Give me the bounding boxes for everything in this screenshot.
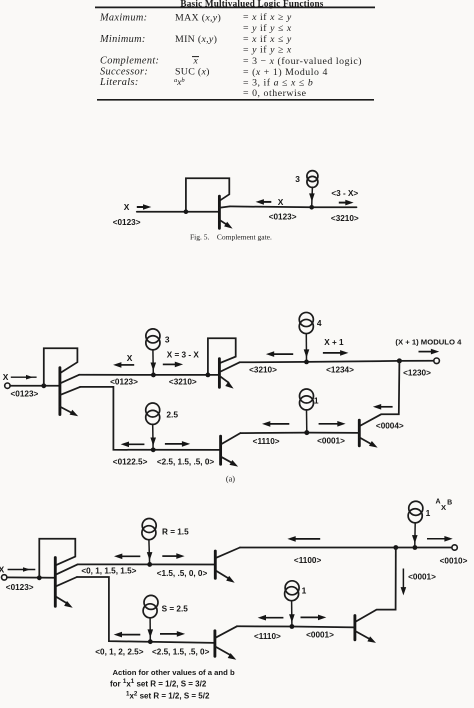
arrow left top wire <box>120 364 134 366</box>
svg-text:<0, 1, 1.5, 1.5>: <0, 1, 1.5, 1.5> <box>81 567 136 576</box>
current source I6 value R <box>142 519 156 533</box>
I8 drop wire with arrow <box>149 618 151 640</box>
fig5 wire Q1 collector to output <box>230 205 357 208</box>
svg-text:<0010>: <0010> <box>440 557 468 566</box>
input terminal circle <box>5 383 10 388</box>
Q6 emitter with arrow <box>56 597 67 604</box>
svg-text:X: X <box>127 353 133 363</box>
svg-text:<3210>: <3210> <box>331 214 359 223</box>
Q2 collector 2 diagonal <box>60 375 79 384</box>
current source I5 value 1 <box>300 389 314 403</box>
svg-text:X = 3 - X: X = 3 - X <box>167 351 200 360</box>
svg-text:<1.5, .5, 0, 0>: <1.5, .5, 0, 0> <box>157 569 208 578</box>
svg-text:MIN (x,y): MIN (x,y) <box>175 34 217 45</box>
svg-text:X: X <box>278 197 284 207</box>
fig5 node base junction <box>184 209 189 214</box>
node I8 junction <box>148 639 153 644</box>
Q6 collector 2 diagonal <box>56 564 78 574</box>
output terminal circle <box>434 358 440 364</box>
svg-text:B: B <box>447 499 452 506</box>
svg-text:1: 1 <box>314 395 319 405</box>
node Q2 base junction <box>41 383 46 388</box>
node I2 junction <box>151 373 156 378</box>
svg-text:4: 4 <box>317 318 322 328</box>
svg-text:<3 - X>: <3 - X> <box>331 189 358 198</box>
svg-text:3: 3 <box>295 174 300 184</box>
svg-text:R = 1.5: R = 1.5 <box>162 528 189 537</box>
wire input to Q2 <box>10 385 60 387</box>
svg-text:axb: axb <box>174 77 185 87</box>
arrow right bottom left wire <box>160 633 177 635</box>
svg-text:Fig. 5. Complement gate.: Fig. 5. Complement gate. <box>190 232 272 241</box>
transistor Q3 base bar <box>218 359 221 388</box>
svg-text:1: 1 <box>302 585 307 595</box>
svg-text:<1100>: <1100> <box>294 556 322 565</box>
svg-text:X: X <box>441 503 446 512</box>
Q3 output collector diagonal <box>220 362 240 372</box>
arrow right after I3 <box>323 352 341 354</box>
svg-text:= 3 − x (four-valued logic): = 3 − x (four-valued logic) <box>243 56 362 67</box>
I4 drop wire with arrow <box>152 424 154 448</box>
fig5 node I1 junction <box>309 205 314 210</box>
current source I8 value S <box>144 595 158 609</box>
svg-text:A: A <box>435 499 440 506</box>
node I9 junction <box>290 624 295 629</box>
svg-text:X: X <box>3 372 9 382</box>
Q7 emitter with arrow <box>216 571 229 579</box>
svg-text:<0123>: <0123> <box>6 583 34 592</box>
node I5 junction <box>304 430 309 435</box>
Q6 collector feedback loop <box>39 539 75 577</box>
svg-text:= x if x ≤ y: = x if x ≤ y <box>243 34 292 45</box>
arrow left top wire bottom diagram <box>121 555 140 557</box>
Q3 collector feedback loop <box>208 338 236 374</box>
svg-text:Action for other values of a a: Action for other values of a and b <box>113 668 235 677</box>
transistor Q8 base bar <box>213 631 216 657</box>
current source I2 value 3 <box>146 329 160 343</box>
arrow right bottom row <box>165 443 183 445</box>
svg-text:<1230>: <1230> <box>403 369 431 378</box>
wire drop node down to Q9 collector <box>356 548 396 622</box>
svg-text:1x2 set R = 1/2, S = 5/2: 1x2 set R = 1/2, S = 5/2 <box>126 691 210 701</box>
svg-text:<0001>: <0001> <box>317 437 345 446</box>
svg-text:Literals:: Literals: <box>99 77 139 88</box>
svg-text:X: X <box>124 202 130 212</box>
svg-text:<1234>: <1234> <box>326 365 354 374</box>
fig5 Q1 output collector <box>219 206 229 207</box>
wire output node down to Q5 collector <box>360 361 400 426</box>
svg-text:<3210>: <3210> <box>249 365 277 374</box>
svg-text:<0004>: <0004> <box>376 421 404 430</box>
svg-text:Maximum:: Maximum: <box>99 13 147 24</box>
I2 drop wire with arrow <box>152 350 154 374</box>
arrow right after I9 <box>301 616 319 618</box>
svg-text:(a): (a) <box>226 475 235 484</box>
node I6 junction <box>147 562 152 567</box>
svg-text:<0, 1, 2, 2.5>: <0, 1, 2, 2.5> <box>95 648 143 657</box>
Q8 collector diagonal <box>216 626 237 637</box>
transistor Q9 base bar <box>353 616 356 640</box>
arrow right before output terminal <box>419 351 432 353</box>
I6 drop wire with arrow <box>148 540 151 564</box>
svg-text:x: x <box>193 56 199 67</box>
current source I7 value 1 <box>409 501 423 515</box>
Q2 collector 3 diagonal <box>60 387 80 395</box>
arrow left before I9 <box>265 617 283 619</box>
svg-text:MAX (x,y): MAX (x,y) <box>175 13 221 24</box>
current source I1 value 3 <box>307 171 318 182</box>
node I3 junction <box>304 360 309 365</box>
fig5 I1 drop wire with arrow <box>311 187 314 206</box>
arrow right after I5 <box>319 423 338 425</box>
svg-text:<0001>: <0001> <box>408 572 436 581</box>
node Q3 base junction <box>206 373 211 378</box>
transistor Q2 base bar <box>58 368 61 415</box>
Q2 emitter with arrow <box>60 407 72 413</box>
Q4 collector diagonal <box>221 433 240 444</box>
svg-text:Minimum:: Minimum: <box>99 34 146 45</box>
svg-text:for 1x1 set R = 1/2, S = 3/2: for 1x1 set R = 1/2, S = 3/2 <box>110 678 207 688</box>
svg-text:S = 2.5: S = 2.5 <box>162 604 189 613</box>
svg-text:= (x + 1) Modulo 4: = (x + 1) Modulo 4 <box>243 67 328 78</box>
Q6 collector 3 diagonal <box>56 577 77 586</box>
fig5 wire input to Q1 base <box>137 211 220 213</box>
fig5 Q1 emitter with arrow <box>219 220 227 225</box>
svg-text:<0123>: <0123> <box>113 218 141 227</box>
transistor Q1 base bar <box>218 196 221 228</box>
Q8 emitter with arrow <box>216 647 230 655</box>
svg-text:Complement:: Complement: <box>100 56 159 67</box>
Q5 emitter with arrow <box>360 438 370 444</box>
node drop junction <box>393 545 398 550</box>
current source I9 value 1 <box>285 581 299 595</box>
transistor Q6 base bar <box>54 558 57 607</box>
wire Q3 to output node <box>240 361 400 362</box>
table bottom rule <box>97 99 374 101</box>
node I4 junction <box>151 447 156 452</box>
svg-text:SUC (x): SUC (x) <box>175 67 210 78</box>
svg-text:<2.5, 1.5, .5, 0>: <2.5, 1.5, .5, 0> <box>152 648 210 657</box>
fig5 arrow right output <box>339 202 346 204</box>
svg-text:<1110>: <1110> <box>254 632 281 641</box>
fig5 arrow right at input <box>137 206 144 208</box>
node output junction <box>397 358 402 363</box>
wire Q6 collector3 down to Q8 <box>77 577 215 643</box>
node I7 junction <box>413 545 418 550</box>
I5 drop wire <box>306 410 308 433</box>
svg-text:= 0, otherwise: = 0, otherwise <box>243 88 307 99</box>
svg-text:<0122.5>: <0122.5> <box>113 457 148 466</box>
svg-text:<3210>: <3210> <box>169 378 197 387</box>
fig5 collector feedback loop wire <box>186 178 229 211</box>
transistor Q5 base bar <box>358 420 361 446</box>
svg-text:<0123>: <0123> <box>269 213 297 222</box>
Q3 emitter with arrow <box>220 376 229 382</box>
svg-text:<0123>: <0123> <box>11 389 39 398</box>
I9 drop wire with arrow <box>291 601 293 625</box>
arrow left bottom row <box>128 443 144 445</box>
arrow left mid top wire <box>295 538 321 540</box>
input arrow bottom <box>8 569 36 571</box>
wire bottom row to Q5 base <box>240 432 359 435</box>
current source I4 value 2.5 <box>146 403 160 417</box>
arrow left bottom left wire <box>121 634 140 636</box>
svg-text:X: X <box>0 564 5 574</box>
svg-text:X + 1: X + 1 <box>324 338 344 347</box>
svg-text:= x if x ≥ y: = x if x ≥ y <box>243 12 292 23</box>
Q4 emitter with arrow <box>221 457 232 463</box>
table top rule <box>95 6 375 8</box>
wire bottom row right to Q9 base <box>237 626 355 627</box>
arrow right top wire <box>163 363 176 365</box>
Q9 emitter with arrow <box>355 631 368 638</box>
svg-text:<0001>: <0001> <box>306 631 334 640</box>
output terminal circle bottom <box>452 545 457 550</box>
svg-text:(X + 1) MODULO 4: (X + 1) MODULO 4 <box>395 337 462 346</box>
svg-text:3: 3 <box>165 334 170 344</box>
svg-text:1: 1 <box>426 508 431 518</box>
input arrow <box>11 376 37 378</box>
arrow left before I3 <box>273 353 293 355</box>
wire to output terminal <box>399 360 433 362</box>
down arrow on drop wire <box>402 569 404 589</box>
svg-text:Successor:: Successor: <box>100 67 148 78</box>
svg-text:= y if y ≤ x: = y if y ≤ x <box>243 23 292 34</box>
fig5 label arrow left X <box>262 201 271 203</box>
Q2 collector feedback loop <box>44 348 78 385</box>
Q7 collector diagonal <box>216 548 240 558</box>
current source I3 value 4 <box>299 312 313 326</box>
transistor Q7 base bar <box>214 551 217 578</box>
svg-text:2.5: 2.5 <box>166 410 178 420</box>
wire Q7 collector to output terminal <box>240 547 452 549</box>
I7 drop wire with arrow <box>414 523 416 546</box>
input terminal circle bottom <box>1 575 6 580</box>
wire Q2 to Q3 top row <box>79 374 219 376</box>
arrow left before I5 <box>269 423 289 425</box>
arrow left on Q5 collector branch <box>380 406 393 408</box>
wire Q2 collector3 down to Q4 <box>80 387 221 450</box>
arrow right before output terminal <box>427 538 445 540</box>
svg-text:= 3, if a ≤ x ≤ b: = 3, if a ≤ x ≤ b <box>243 77 313 88</box>
svg-text:<0123>: <0123> <box>110 378 138 387</box>
svg-text:<2.5, 1.5, .5, 0>: <2.5, 1.5, .5, 0> <box>157 457 215 466</box>
svg-text:<1110>: <1110> <box>253 437 280 446</box>
arrow right after I6 <box>162 555 177 557</box>
I3 drop wire with arrow <box>305 334 307 361</box>
wire input to Q6 <box>7 576 55 578</box>
transistor Q4 base bar <box>219 436 222 464</box>
svg-text:= y if y ≥ x: = y if y ≥ x <box>243 45 292 56</box>
node Q6 base junction <box>37 575 42 580</box>
wire Q6 to Q7 top row <box>78 563 216 565</box>
